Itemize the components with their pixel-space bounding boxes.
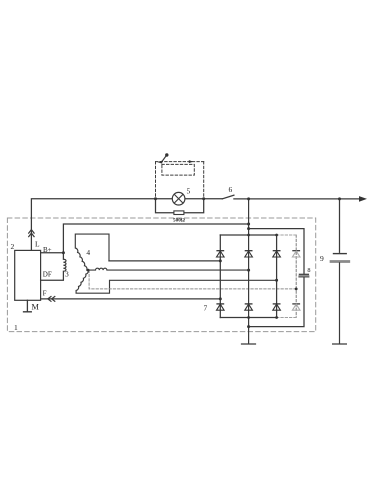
svg-text:500Ω: 500Ω [173, 218, 185, 224]
svg-text:DF: DF [43, 270, 52, 278]
svg-text:2: 2 [11, 242, 15, 251]
svg-text:3: 3 [65, 270, 69, 279]
svg-text:8: 8 [307, 267, 310, 274]
svg-text:9: 9 [320, 254, 324, 263]
svg-text:L: L [35, 239, 40, 248]
svg-text:B+: B+ [43, 246, 52, 254]
svg-text:6: 6 [229, 185, 233, 194]
svg-text:5: 5 [187, 187, 191, 196]
svg-text:F: F [43, 290, 47, 298]
svg-text:7: 7 [204, 304, 208, 313]
svg-text:M: M [32, 303, 40, 312]
svg-text:1: 1 [14, 323, 18, 332]
svg-text:4: 4 [86, 248, 90, 257]
